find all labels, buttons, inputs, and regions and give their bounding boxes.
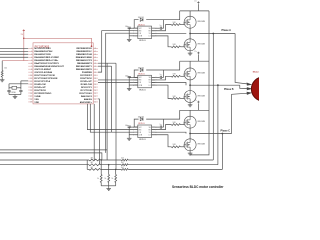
ground source bridge B (188, 104, 193, 107)
wire drain high bridge B (189, 61, 191, 68)
svg-text:10: 10 (30, 75, 32, 77)
ground crystal (13, 95, 18, 98)
resistor shunt R1c (97, 160, 102, 183)
svg-text:20: 20 (94, 72, 96, 74)
ground input bridge C (127, 137, 132, 140)
ground source bridge C (188, 152, 193, 155)
svg-text:RA4/T0CKI/C1OUT/RCV: RA4/T0CKI/C1OUT/RCV (34, 62, 59, 65)
wire MCLR horizontal (2, 60, 28, 62)
bootstrap diode bridge C (138, 116, 144, 120)
svg-text:Phase B: Phase B (224, 88, 234, 91)
wire input left 1 (0, 47, 28, 49)
svg-text:14: 14 (94, 90, 96, 92)
svg-text:15: 15 (94, 87, 96, 89)
svg-text:13: 13 (30, 84, 32, 86)
gate driver U bridge C (133, 123, 157, 141)
resistor sense R3b (121, 167, 128, 171)
svg-text:18: 18 (94, 78, 96, 80)
wire phase out bridge B (190, 84, 240, 86)
svg-text:HIN: HIN (139, 30, 142, 32)
svg-text:1k: 1k (105, 178, 107, 180)
gate resistor low bridge C (152, 135, 185, 148)
svg-text:10: 10 (94, 102, 96, 104)
transistor Q low bridge B (184, 91, 206, 103)
wire row6 to bus (98, 62, 116, 64)
svg-text:19: 19 (94, 75, 96, 77)
wire VS to phase bridge B (152, 83, 187, 86)
input capacitor label bridge B (125, 75, 129, 77)
svg-text:IRFZ44N: IRFZ44N (198, 44, 206, 46)
svg-text:LO: LO (149, 36, 152, 38)
svg-text:VB: VB (149, 28, 151, 30)
wire phase node bridge A (189, 28, 191, 39)
svg-text:7: 7 (31, 66, 32, 68)
svg-text:IRFZ44N: IRFZ44N (198, 73, 206, 75)
svg-text:10R: 10R (173, 44, 177, 46)
wire sense tie left (87, 160, 89, 169)
wire phase node bridge C (189, 128, 191, 139)
svg-text:3: 3 (31, 54, 32, 56)
wire sense row1 left (0, 159, 89, 161)
svg-text:12: 12 (30, 81, 32, 83)
svg-text:RA1/AN1/C12IN: RA1/AN1/C12IN (34, 53, 51, 56)
svg-text:28: 28 (94, 48, 96, 50)
wire bridge2 LIN (98, 82, 138, 84)
svg-text:26: 26 (94, 54, 96, 56)
svg-text:RB5/KBI1/PGM: RB5/KBI1/PGM (76, 54, 92, 56)
bootstrap diode bridge B (138, 67, 144, 71)
svg-text:AN3/VREF+: AN3/VREF+ (80, 101, 93, 104)
svg-text:1N4148: 1N4148 (138, 17, 144, 19)
svg-text:RA2/AN2/VREF-/CVREF: RA2/AN2/VREF-/CVREF (34, 56, 59, 59)
svg-text:HO: HO (148, 30, 151, 32)
svg-text:9: 9 (31, 72, 32, 74)
wire row3 right (128, 168, 222, 170)
resistor sense R3a (89, 167, 101, 171)
transistor Q low bridge A (184, 39, 206, 51)
svg-text:VCC: VCC (139, 127, 143, 129)
svg-text:RB0/AN12/INT0: RB0/AN12/INT0 (76, 68, 93, 71)
svg-text:4k7: 4k7 (121, 157, 124, 159)
svg-text:VDD: VDD (34, 102, 39, 104)
svg-text:10R: 10R (173, 144, 177, 146)
svg-text:IRFZ44N: IRFZ44N (198, 144, 206, 146)
svg-text:HO: HO (148, 129, 151, 131)
svg-text:3: 3 (133, 132, 134, 134)
gate resistor high bridge C (152, 122, 185, 130)
svg-text:IR2101: IR2101 (139, 40, 146, 42)
wire phase node bridge B (189, 80, 191, 91)
wire row2 right (128, 164, 218, 166)
wire feedback line 2 (0, 153, 102, 160)
svg-text:RC6/TX/CK: RC6/TX/CK (80, 78, 92, 80)
svg-text:13: 13 (94, 93, 96, 95)
svg-text:IR2101: IR2101 (139, 89, 146, 91)
input capacitor bridge B (128, 76, 138, 87)
ground below R1 (0, 79, 5, 82)
svg-text:24: 24 (94, 60, 96, 62)
svg-text:27: 27 (94, 51, 96, 53)
svg-text:RA0/AN0/ULPWU: RA0/AN0/ULPWU (34, 50, 52, 53)
wire motor lead B (240, 85, 253, 90)
wire rail to diode bridge A (134, 11, 180, 28)
wire phase B sense tap (217, 85, 219, 165)
svg-text:LIN: LIN (139, 132, 141, 134)
svg-text:MCLR/VPP/RE3: MCLR/VPP/RE3 (34, 48, 51, 50)
wire row7 to bus (98, 65, 112, 67)
svg-text:1N4148: 1N4148 (138, 116, 144, 118)
svg-text:2: 2 (133, 80, 134, 82)
svg-text:LO: LO (149, 134, 152, 136)
svg-text:1u: 1u (160, 74, 162, 76)
svg-text:RC1/T1OSI: RC1/T1OSI (80, 90, 92, 92)
wire bridge3 LIN feed (90, 104, 138, 132)
svg-text:VS: VS (149, 82, 151, 84)
wire row1 right (128, 159, 213, 161)
svg-text:PGM/RB5: PGM/RB5 (82, 72, 93, 74)
wire motor lead A (235, 34, 252, 86)
svg-text:16: 16 (30, 93, 32, 95)
ground input bridge B (127, 87, 132, 90)
svg-text:1k: 1k (112, 178, 114, 180)
svg-text:COM: COM (139, 134, 143, 136)
svg-text:RC6/TX/CK: RC6/TX/CK (34, 90, 46, 92)
svg-text:AN4/SS: AN4/SS (84, 98, 92, 101)
svg-text:17: 17 (30, 96, 32, 98)
wire +5V vertical (23, 32, 25, 61)
wire row2 mid (101, 164, 122, 166)
svg-text:10k: 10k (4, 68, 7, 70)
wire phase A sense tap (212, 34, 214, 161)
resistor shunt R3c (112, 169, 117, 182)
resistor R1 (1, 61, 7, 77)
svg-text:16: 16 (94, 84, 96, 86)
svg-text:RB3/AN9/CCP2: RB3/AN9/CCP2 (76, 59, 93, 62)
svg-text:RA6/OSC2: RA6/OSC2 (81, 95, 93, 98)
bootstrap diode bridge A (138, 17, 144, 21)
svg-text:VCC: VCC (139, 28, 143, 30)
resistor shunt R2c (105, 165, 110, 183)
resistor sense R1b (121, 157, 128, 161)
svg-text:COM: COM (139, 36, 143, 38)
wire bridge3 HIN (87, 104, 137, 130)
svg-text:12: 12 (94, 96, 96, 98)
svg-text:LIN: LIN (139, 82, 141, 84)
input capacitor bridge A (128, 27, 138, 38)
wire feedback line 1 (0, 149, 107, 151)
wire input left 3 (0, 53, 28, 55)
svg-text:2: 2 (133, 30, 134, 32)
bootstrap capacitor bridge B (152, 70, 164, 79)
wire rail to diode bridge C (134, 110, 180, 127)
power +12V terminal bridge C (194, 100, 200, 110)
ground input bridge A (127, 38, 132, 41)
resistor sense R2a (89, 162, 101, 166)
svg-text:2: 2 (133, 129, 134, 131)
svg-text:1u: 1u (160, 124, 162, 126)
wire VS to phase bridge A (152, 32, 187, 34)
svg-text:3: 3 (133, 82, 134, 84)
resistor sense R2b (121, 162, 128, 166)
svg-text:1u: 1u (160, 25, 162, 27)
label Phase C (221, 129, 231, 132)
wire OSC1 (9, 83, 28, 85)
motor M1 (251, 70, 275, 101)
junction phase A (212, 33, 214, 35)
svg-text:LIN: LIN (139, 33, 141, 35)
gate resistor low bridge B (152, 85, 185, 99)
svg-text:10R: 10R (173, 96, 177, 98)
svg-text:RB7/KBI3/PGD: RB7/KBI3/PGD (76, 48, 92, 50)
svg-text:5: 5 (31, 60, 32, 62)
bootstrap capacitor bridge A (152, 20, 164, 30)
wire row3 mid (101, 169, 122, 171)
input capacitor bridge C (128, 126, 138, 137)
svg-text:11: 11 (30, 78, 32, 80)
svg-text:1N4148: 1N4148 (138, 67, 144, 69)
wire phase out bridge C (190, 133, 232, 135)
svg-text:OSC2/CLKO/RA6: OSC2/CLKO/RA6 (34, 71, 53, 74)
svg-text:IRFZ44N: IRFZ44N (198, 121, 206, 123)
input capacitor label bridge A (125, 26, 129, 28)
svg-text:10R: 10R (173, 122, 177, 124)
input capacitor label bridge C (125, 125, 129, 127)
wire chip bottom left down (93, 104, 95, 160)
gate resistor high bridge A (152, 22, 185, 31)
wire OSC2 (21, 81, 28, 84)
wire VCC rail bridge A (180, 10, 209, 12)
svg-text:VCC: VCC (139, 77, 143, 79)
wire bus down mid (106, 63, 108, 160)
wire bridge1 HIN feed (98, 31, 138, 72)
svg-text:Motor: Motor (253, 70, 259, 73)
wire bus x116 down (115, 63, 117, 169)
svg-text:IR2101: IR2101 (139, 139, 146, 141)
wire drain high bridge C (189, 110, 191, 116)
wire bridge1 LIN feed (106, 33, 138, 153)
svg-text:RC7/RX/DT: RC7/RX/DT (80, 75, 92, 77)
svg-text:4k7: 4k7 (121, 167, 124, 169)
wire crystal right (20, 84, 22, 90)
svg-text:LO: LO (149, 85, 152, 87)
svg-text:23: 23 (94, 63, 96, 65)
junction phase C (222, 133, 224, 135)
wire bridge2 HIN (98, 79, 138, 81)
capacitor C2 (19, 90, 22, 91)
wire R1 to ground (1, 77, 3, 79)
svg-text:12v: 12v (194, 100, 197, 102)
svg-text:15: 15 (30, 90, 32, 92)
transistor Q low bridge C (184, 139, 206, 151)
svg-text:4k7: 4k7 (121, 162, 124, 164)
wire source low bridge B (189, 103, 191, 104)
microcontroller U1 PIC18F2455 (28, 43, 98, 104)
transistor Q high bridge C (184, 116, 206, 128)
svg-text:3: 3 (133, 33, 134, 35)
svg-text:VB: VB (149, 127, 151, 129)
ground source bridge A (188, 52, 193, 55)
wire VCC rail bridge C (180, 109, 209, 111)
svg-text:RB1/AN10/INT1: RB1/AN10/INT1 (76, 65, 93, 68)
svg-text:OSC1/CLKI/RA7: OSC1/CLKI/RA7 (34, 68, 51, 71)
caption (172, 185, 224, 189)
svg-text:IR2101: IR2101 (138, 74, 145, 76)
svg-text:VUSB: VUSB (34, 96, 40, 98)
wire input left 4 (0, 56, 28, 58)
svg-text:4k7: 4k7 (91, 157, 94, 159)
crystal X1 (9, 86, 21, 94)
power terminal +5V (21, 29, 25, 36)
wire drain high bridge A (189, 11, 191, 16)
gate driver U bridge B (133, 74, 157, 92)
svg-text:RB4/AN11/KBI0: RB4/AN11/KBI0 (76, 56, 93, 59)
svg-text:RC0/T1OSO: RC0/T1OSO (79, 93, 92, 95)
svg-text:4: 4 (31, 57, 32, 59)
svg-text:IR2101: IR2101 (138, 24, 145, 26)
svg-text:4k7: 4k7 (91, 162, 94, 164)
svg-text:Sensorless BLDC motor controll: Sensorless BLDC motor controller (172, 185, 224, 189)
svg-text:10R: 10R (173, 22, 177, 24)
wire +5V to VDD (24, 38, 93, 47)
svg-text:17: 17 (94, 81, 96, 83)
svg-text:5V: 5V (21, 34, 24, 36)
power +12V terminal bridge B (194, 51, 200, 61)
svg-text:VSS: VSS (34, 99, 39, 101)
svg-text:Phase C: Phase C (221, 129, 231, 132)
wire motor lead C (232, 92, 253, 134)
wire crystal left (8, 84, 10, 90)
wire phase C sense tap (221, 134, 223, 170)
svg-text:VB: VB (149, 77, 151, 79)
svg-text:10R: 10R (173, 74, 177, 76)
svg-text:18: 18 (30, 99, 32, 101)
svg-text:Phase A: Phase A (222, 29, 232, 32)
svg-text:11: 11 (94, 99, 96, 101)
gate driver U bridge A (133, 24, 157, 42)
wire VCC rail bridge B (180, 60, 209, 62)
svg-text:1k: 1k (97, 178, 99, 180)
resistor sense R1a (89, 157, 101, 161)
svg-text:8: 8 (31, 69, 32, 71)
svg-text:VS: VS (149, 33, 151, 35)
svg-text:COM: COM (139, 85, 143, 87)
gate resistor high bridge B (152, 74, 185, 80)
svg-text:RA3/AN3/VREF+/C1IN+: RA3/AN3/VREF+/C1IN+ (34, 59, 59, 62)
svg-text:RB6/KBI2/PGC: RB6/KBI2/PGC (76, 51, 92, 53)
svg-text:IRFZ44N: IRFZ44N (198, 21, 206, 23)
wire phase out bridge A (190, 33, 235, 35)
wire bus x111 down (111, 66, 113, 132)
svg-text:RC4/D-/VM: RC4/D-/VM (81, 83, 92, 86)
svg-text:RA5/AN4/SS/HLVDIN/C2OUT: RA5/AN4/SS/HLVDIN/C2OUT (34, 65, 64, 68)
svg-text:12v: 12v (194, 51, 197, 53)
svg-text:6: 6 (31, 63, 32, 65)
wire VS to phase bridge C (152, 132, 187, 133)
svg-text:RC2/CCP1/P1A: RC2/CCP1/P1A (34, 80, 50, 83)
ground sense network (106, 187, 111, 190)
wire shunts to ground (101, 183, 116, 188)
svg-text:4k7: 4k7 (91, 167, 94, 169)
wire source low bridge A (189, 51, 191, 52)
junction phase B (217, 84, 219, 86)
svg-text:1: 1 (31, 48, 32, 50)
svg-text:RC0/T1OSO/T13CKI: RC0/T1OSO/T13CKI (34, 75, 55, 77)
svg-text:IR2101: IR2101 (138, 123, 145, 125)
wire rail to diode bridge B (134, 61, 180, 77)
power +12V terminal bridge A (194, 1, 200, 11)
wire caps to ground (9, 92, 21, 96)
svg-text:RC5/D+/VP: RC5/D+/VP (34, 87, 46, 89)
svg-text:2: 2 (31, 51, 32, 53)
svg-text:RC4/D-/VM: RC4/D-/VM (34, 83, 45, 86)
svg-text:VS: VS (149, 132, 151, 134)
svg-text:22: 22 (94, 66, 96, 68)
wire VCC bus right (191, 11, 210, 155)
svg-text:CRYSTAL: CRYSTAL (9, 91, 16, 94)
capacitor C1 (7, 90, 10, 91)
wire row1 mid (100, 159, 121, 161)
wire source low bridge C (189, 151, 191, 152)
wire sense row2 left (0, 164, 89, 166)
svg-text:25: 25 (94, 57, 96, 59)
svg-text:21: 21 (94, 69, 96, 71)
svg-text:HO: HO (148, 80, 151, 82)
gate resistor low bridge A (152, 36, 185, 48)
transistor Q high bridge B (184, 68, 206, 80)
svg-text:12v: 12v (194, 1, 197, 3)
label Phase B (224, 88, 234, 91)
svg-text:RB2/AN8/INT2: RB2/AN8/INT2 (77, 62, 92, 65)
svg-text:14: 14 (30, 87, 32, 89)
svg-text:HIN: HIN (139, 80, 142, 82)
svg-text:RC7/RX/DT/SDO: RC7/RX/DT/SDO (34, 93, 51, 95)
svg-text:HIN: HIN (139, 129, 142, 131)
wire chip bottom right down (98, 99, 99, 165)
transistor Q high bridge A (184, 16, 206, 28)
wire input left 2 (0, 50, 28, 52)
svg-text:RC5/D+/VP: RC5/D+/VP (80, 81, 92, 83)
bootstrap capacitor bridge C (152, 119, 164, 129)
svg-text:19: 19 (30, 102, 32, 104)
svg-text:RC1/T1OSI/CCP2/UOE: RC1/T1OSI/CCP2/UOE (34, 78, 58, 80)
svg-text:RC2/CCP1: RC2/CCP1 (81, 87, 93, 89)
label Phase A (222, 29, 232, 32)
svg-text:IRFZ44N: IRFZ44N (198, 95, 206, 97)
